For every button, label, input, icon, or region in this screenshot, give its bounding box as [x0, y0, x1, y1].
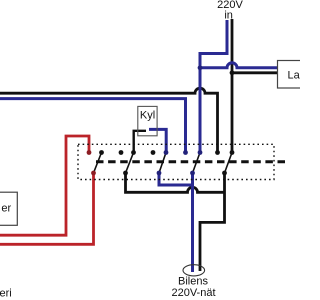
svg-text:eri: eri: [0, 287, 12, 299]
svg-text:er: er: [1, 203, 11, 215]
svg-text:Bilens: Bilens: [178, 276, 208, 288]
svg-text:Kyl: Kyl: [140, 110, 155, 122]
svg-text:Laddare: Laddare: [288, 69, 301, 81]
svg-text:220V-nät: 220V-nät: [171, 287, 215, 299]
svg-text:in: in: [224, 10, 233, 22]
